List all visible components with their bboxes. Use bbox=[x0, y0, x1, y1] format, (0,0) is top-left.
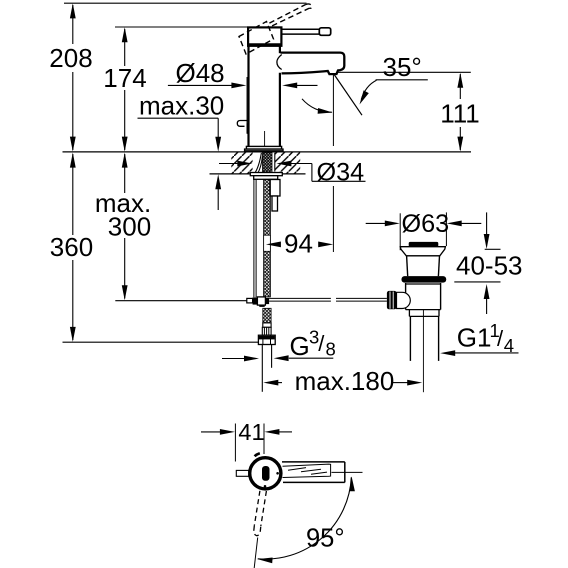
hose collar bbox=[263, 323, 271, 327]
top view spout inner detail bbox=[283, 464, 331, 477]
G3/8 nut bbox=[258, 335, 275, 344]
dashed lever in top view bbox=[254, 491, 267, 536]
svg-text:111: 111 bbox=[440, 99, 480, 129]
mounting washer below deck bbox=[250, 173, 282, 180]
dimension 111 bbox=[338, 72, 480, 151]
drain neck bbox=[407, 256, 408, 276]
Ø63 dimension bbox=[366, 210, 482, 250]
flexible hose braid upper bbox=[264, 179, 271, 235]
dimension Ø34 bbox=[219, 159, 366, 187]
threaded shank in deck hole bbox=[263, 152, 273, 173]
deck hatching right block bbox=[275, 153, 300, 174]
svg-text:94: 94 bbox=[284, 229, 313, 259]
G3/8 label bbox=[274, 327, 336, 362]
hose edges through gap bbox=[263, 235, 265, 251]
hose below tee: braid bbox=[263, 308, 271, 323]
dimension max.180 bbox=[263, 366, 422, 396]
tailpipe centerline bbox=[422, 309, 424, 392]
dimension 174 bbox=[103, 27, 146, 151]
svg-text:G1: G1 bbox=[457, 323, 492, 353]
dimension 94 bbox=[266, 229, 333, 259]
hose curves in hole bbox=[255, 153, 262, 174]
svg-text:max.30: max.30 bbox=[139, 91, 224, 121]
drain plug top (black) bbox=[409, 242, 439, 247]
dimension 35 deg bbox=[302, 52, 428, 115]
right strip in hole bbox=[274, 153, 276, 172]
svg-text:300: 300 bbox=[108, 212, 151, 242]
knob connector bbox=[397, 292, 411, 308]
svg-text:95°: 95° bbox=[306, 525, 345, 553]
svg-text:Ø34: Ø34 bbox=[317, 159, 365, 187]
top reference line (lever max height) bbox=[64, 2, 307, 4]
svg-text:174: 174 bbox=[103, 63, 146, 93]
thread diameter arrows (unlabeled left) bbox=[222, 358, 245, 360]
countertop deck line bbox=[63, 151, 472, 153]
dimension Ø48 label and arrows bbox=[168, 58, 318, 133]
small dot bottom bbox=[264, 485, 267, 488]
dimension 40-53 bbox=[454, 212, 522, 314]
horizontal pop-up rod bbox=[269, 298, 387, 301]
rod coupling (tee) bbox=[247, 297, 269, 307]
dimension 360 bbox=[50, 153, 258, 343]
35 deg stream diagonal bbox=[333, 73, 362, 115]
svg-text:/: / bbox=[318, 331, 325, 356]
top view centerline bbox=[332, 471, 363, 473]
G1 1/4 label bbox=[440, 320, 518, 356]
svg-text:41: 41 bbox=[238, 419, 264, 445]
O-ring seal (black band) bbox=[402, 276, 447, 283]
svg-text:G: G bbox=[290, 331, 310, 361]
dimension max.300 bbox=[95, 153, 247, 301]
pop-up rod hook on body bbox=[237, 121, 248, 134]
flexible hose braid lower bbox=[264, 251, 271, 297]
lever hole (black) bbox=[262, 466, 270, 481]
hose ferrule ribs bbox=[262, 327, 271, 335]
spout tip vertical reference line bbox=[332, 74, 334, 146]
lever (solid, horizontal) bbox=[281, 28, 330, 36]
svg-text:Ø48: Ø48 bbox=[176, 58, 225, 88]
deck bottom line bbox=[210, 173, 306, 175]
95 deg ray bbox=[254, 538, 258, 568]
svg-text:360: 360 bbox=[50, 232, 93, 262]
dimension max.30 bbox=[138, 91, 225, 211]
tailpipe bbox=[409, 316, 411, 361]
drain body bbox=[406, 283, 441, 285]
faucet body bbox=[249, 46, 280, 146]
top view spout bbox=[282, 462, 345, 483]
svg-text:35°: 35° bbox=[383, 52, 422, 82]
95 deg arc bbox=[258, 477, 352, 559]
deck hatching left block bbox=[231, 153, 252, 174]
svg-text:max.180: max.180 bbox=[295, 366, 395, 396]
cartridge cap (solid) bbox=[248, 27, 281, 45]
fixing stud and nut bbox=[270, 180, 280, 212]
dimension 41 bbox=[201, 419, 292, 462]
top view body circle bbox=[250, 458, 281, 489]
body centerline bottom bbox=[264, 131, 266, 152]
lever dashed (raised position) bbox=[239, 4, 312, 54]
spout bbox=[277, 53, 344, 75]
svg-text:Ø63: Ø63 bbox=[402, 210, 450, 238]
ring tab top-left bbox=[255, 453, 260, 456]
angle arc with arrow bbox=[302, 99, 332, 112]
pop-up rod stub left bbox=[236, 470, 248, 476]
svg-text:208: 208 bbox=[49, 43, 92, 73]
svg-text:40-53: 40-53 bbox=[456, 251, 523, 281]
G3/8 thread lines bbox=[261, 345, 263, 392]
rod knob (knurled) bbox=[387, 291, 397, 309]
coupling ring bbox=[406, 310, 441, 317]
dimension 208 bbox=[49, 3, 92, 151]
svg-text:8: 8 bbox=[326, 339, 336, 360]
drain flange bbox=[400, 247, 445, 256]
pop-up vertical rod bbox=[253, 179, 255, 297]
cap-top reference line (174) bbox=[115, 26, 248, 28]
base plate bbox=[245, 146, 283, 151]
small dot right bbox=[276, 472, 279, 475]
